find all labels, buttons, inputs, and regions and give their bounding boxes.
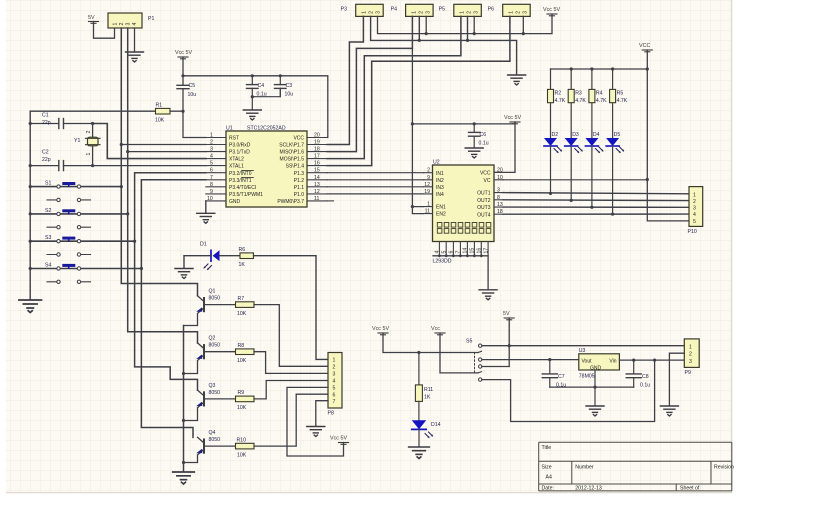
node P4 pin2 <box>418 39 421 42</box>
U2 GND pin stubs to bus <box>439 242 488 256</box>
wire GND-bus to R1 <box>30 110 155 112</box>
svg-text:D14: D14 <box>431 422 441 428</box>
transistor Q4 <box>184 430 236 463</box>
transistor Q2 <box>184 336 236 374</box>
svg-text:17: 17 <box>314 154 320 160</box>
svg-text:L293DD: L293DD <box>433 259 452 265</box>
wire net P1.3/TxD/S2/Q2: vertical x=127.7 <box>128 28 198 343</box>
node C1-crystal junction <box>91 122 94 125</box>
svg-text:IN3: IN3 <box>436 185 444 191</box>
wire RxD row to U1 pin2 <box>121 144 206 146</box>
svg-text:6: 6 <box>333 392 336 398</box>
wire U1 GND pin10 to ground <box>205 201 207 213</box>
LED D2 <box>544 132 562 193</box>
svg-text:SS\P1.4: SS\P1.4 <box>286 164 305 170</box>
power 5V at regulator <box>503 311 514 320</box>
wire left ground bus vertical <box>29 111 31 299</box>
capacitor C6 <box>469 124 489 148</box>
svg-text:P3.3/INT1: P3.3/INT1 <box>229 178 252 184</box>
power Vcc 5V at U2 <box>504 115 521 124</box>
node S1 tap <box>120 185 123 188</box>
svg-text:5V: 5V <box>503 311 510 317</box>
svg-text:1K: 1K <box>239 262 246 268</box>
U2 GND pin rotated numbers <box>435 248 490 254</box>
U1 INT0/INT1 overlines <box>242 170 254 177</box>
svg-text:P4: P4 <box>391 7 397 13</box>
U1 left pin numbers <box>207 133 213 202</box>
svg-text:P3.2/INT0: P3.2/INT0 <box>229 171 252 177</box>
svg-text:R6: R6 <box>239 247 246 253</box>
capacitor C7 <box>542 360 566 389</box>
node C5/R1/RST junction <box>181 110 184 113</box>
svg-text:4: 4 <box>435 251 441 254</box>
svg-text:P5: P5 <box>439 7 445 13</box>
svg-text:Q4: Q4 <box>209 430 216 436</box>
svg-text:Date:: Date: <box>542 485 554 491</box>
svg-text:Y1: Y1 <box>74 138 80 144</box>
ground U2 <box>479 290 497 300</box>
svg-text:7: 7 <box>456 251 462 254</box>
svg-text:MOSI\P1.5: MOSI\P1.5 <box>280 157 305 163</box>
svg-text:P1.2: P1.2 <box>294 178 305 184</box>
svg-text:GND: GND <box>590 365 602 371</box>
node P6 pin3 <box>522 32 525 35</box>
svg-text:8: 8 <box>210 182 213 188</box>
wire 5V to P1 pin1 <box>94 22 115 39</box>
svg-text:VC: VC <box>484 178 491 184</box>
resistor R3 <box>568 69 586 139</box>
svg-text:P1.1: P1.1 <box>294 185 305 191</box>
node S1 bus <box>29 185 32 188</box>
wire U1 pin15 to U2 IN1 <box>327 172 423 174</box>
crystal Y1 <box>74 124 100 166</box>
svg-text:P3.1/TxD: P3.1/TxD <box>229 150 250 156</box>
svg-text:20: 20 <box>314 133 320 139</box>
resistor R7 <box>236 296 255 317</box>
node EN rail Vcc branch <box>411 122 414 125</box>
svg-text:3: 3 <box>523 11 529 14</box>
svg-text:3: 3 <box>425 11 431 14</box>
wire R11 top <box>418 353 420 385</box>
ground C4/C3 <box>243 110 261 120</box>
node 5V crossing pole1 line <box>508 344 511 347</box>
svg-text:C4: C4 <box>258 83 265 89</box>
wire TxD row to U1 pin3 <box>128 151 206 153</box>
chip U2 L293DD body <box>433 165 495 242</box>
svg-text:Number: Number <box>575 465 594 471</box>
svg-text:0.1u: 0.1u <box>479 141 489 147</box>
svg-text:1: 1 <box>693 192 696 198</box>
wire Vcc5V to U2 VCC pin20 <box>494 122 515 172</box>
svg-text:C1: C1 <box>42 113 49 119</box>
ground top connectors <box>508 75 526 85</box>
svg-text:P3.4/T0/ECI: P3.4/T0/ECI <box>229 185 256 191</box>
svg-text:5: 5 <box>333 386 336 392</box>
svg-text:XTAL2: XTAL2 <box>229 157 244 163</box>
svg-text:Vcc 5V: Vcc 5V <box>372 326 389 332</box>
ground D1 <box>175 269 193 279</box>
node C8 top <box>632 359 635 362</box>
svg-text:A4: A4 <box>546 475 552 481</box>
wire VCC vertical to P10 pin5 <box>647 50 689 221</box>
svg-text:6: 6 <box>210 168 213 174</box>
node VCC/led-rail <box>646 67 649 70</box>
svg-text:Vcc 5V: Vcc 5V <box>504 115 521 121</box>
svg-text:1: 1 <box>86 153 92 156</box>
svg-text:VCC: VCC <box>480 171 491 177</box>
svg-text:1: 1 <box>333 358 336 364</box>
svg-text:2: 2 <box>516 11 522 14</box>
svg-text:4: 4 <box>210 154 213 160</box>
wire S5 top contact to P9 pin1 <box>482 345 689 347</box>
capacitor C8 <box>626 360 650 388</box>
switch S5 <box>466 339 482 382</box>
node Q4 emitter rail <box>182 461 185 464</box>
capacitor C5 <box>177 83 196 98</box>
svg-text:R9: R9 <box>238 390 245 396</box>
svg-text:Vcc 5V: Vcc 5V <box>543 7 560 13</box>
svg-text:Title: Title <box>542 445 552 451</box>
svg-text:2012-12-13: 2012-12-13 <box>575 485 602 491</box>
resistor R10 <box>236 437 255 458</box>
wire Vcc vertical to C5 and R1 junction then U1 pin1 <box>183 57 206 138</box>
svg-text:PWM0\P3.7: PWM0\P3.7 <box>277 199 304 205</box>
svg-text:9: 9 <box>427 175 430 181</box>
svg-text:Revision: Revision <box>714 465 734 471</box>
connector P3 <box>341 4 384 16</box>
U2 left pin numbers <box>424 168 430 215</box>
node S2 bus <box>29 212 32 215</box>
wire net S4/INT1/Q4 <box>141 180 205 438</box>
node VCC/VC-line <box>646 178 649 181</box>
node Q3 emitter rail <box>182 419 185 422</box>
resistor R1 <box>155 103 170 124</box>
power Vcc 5V at P8 <box>330 436 349 445</box>
U1 right pin names <box>277 136 304 205</box>
wire Vcc to S5 pole2 <box>440 333 478 373</box>
resistor R4 <box>589 69 607 139</box>
LED D1 <box>200 242 220 270</box>
U1 left pin stubs 1-10 <box>206 138 226 201</box>
svg-text:9: 9 <box>210 189 213 195</box>
svg-text:17: 17 <box>483 248 489 254</box>
ground left bus <box>19 300 42 313</box>
node C4 top <box>251 74 254 77</box>
node C4 bottom <box>251 95 254 98</box>
node S3 bus <box>29 240 32 243</box>
svg-text:Q2: Q2 <box>209 336 216 342</box>
wire R6 to P8 pin1 <box>254 256 329 360</box>
node P1.3 row <box>126 150 129 153</box>
svg-text:5: 5 <box>693 219 696 225</box>
svg-text:1: 1 <box>427 202 430 208</box>
svg-text:D1: D1 <box>200 242 207 248</box>
node D2 to OUT1 <box>549 192 552 195</box>
node P5 pin2 <box>466 39 469 42</box>
svg-text:12: 12 <box>314 189 320 195</box>
svg-text:STC12C2052AD: STC12C2052AD <box>247 126 286 132</box>
svg-text:U3: U3 <box>579 348 586 354</box>
svg-text:8: 8 <box>497 195 500 201</box>
svg-text:4: 4 <box>132 23 138 26</box>
wire OUT3 to P10 pin3 <box>503 206 689 208</box>
svg-text:C5: C5 <box>189 83 196 89</box>
svg-text:Vin: Vin <box>609 359 616 365</box>
svg-text:1: 1 <box>411 11 417 14</box>
wire C7/C8 ground bus to U3 GND <box>550 370 634 406</box>
svg-text:10u: 10u <box>188 92 197 98</box>
svg-text:5V: 5V <box>88 15 95 21</box>
node R11 tap <box>417 351 420 354</box>
node P4 pin3 <box>425 32 428 35</box>
node U3 gnd <box>593 386 596 389</box>
node D4 to OUT3 <box>590 206 593 209</box>
capacitor C3 <box>275 76 294 98</box>
wire VCC pin20 riser to decoupling rail <box>183 76 328 138</box>
svg-text:10K: 10K <box>237 452 247 458</box>
node bus-C1 <box>29 122 32 125</box>
wire U2 VC pin10 to VCC rail <box>503 179 647 181</box>
svg-text:R2: R2 <box>555 91 562 97</box>
wire Vcc5V to S5 pole1 <box>383 333 478 353</box>
node U2 gnd joins <box>438 254 483 257</box>
svg-text:2: 2 <box>689 352 692 358</box>
LED D14 <box>412 420 441 438</box>
transistor Q3 <box>184 383 236 421</box>
svg-text:2: 2 <box>467 11 473 14</box>
wire D14 to ground <box>418 429 420 446</box>
node rail col3 <box>590 67 593 70</box>
power Vcc 5V (reset circuit) <box>175 50 192 59</box>
svg-text:3: 3 <box>126 23 132 26</box>
node S3 tap <box>133 240 136 243</box>
svg-text:10: 10 <box>207 196 213 202</box>
svg-text:1K: 1K <box>424 395 431 401</box>
svg-text:10u: 10u <box>285 92 294 98</box>
wire OUT4 to P10 pin4 <box>503 213 689 215</box>
svg-text:3: 3 <box>689 359 692 365</box>
svg-text:15: 15 <box>314 168 320 174</box>
wire R9 to P8 pin4 <box>254 381 328 399</box>
svg-text:R4: R4 <box>596 91 603 97</box>
node C2-crystal junction <box>91 164 94 167</box>
connector P9 <box>684 339 699 376</box>
svg-text:S1: S1 <box>45 181 51 187</box>
svg-text:10K: 10K <box>237 311 247 317</box>
svg-text:2: 2 <box>427 168 430 174</box>
wire U1 pin11 stub dangling <box>327 200 333 202</box>
svg-text:Q3: Q3 <box>209 383 216 389</box>
svg-text:R11: R11 <box>424 387 433 393</box>
node D3 to OUT2 <box>570 199 573 202</box>
U1 right pin stubs 20-11 <box>307 138 327 201</box>
svg-text:Vcc 5V: Vcc 5V <box>175 50 192 56</box>
svg-text:4.7K: 4.7K <box>596 98 607 104</box>
svg-text:SCLK\P1.7: SCLK\P1.7 <box>279 143 304 149</box>
svg-text:C6: C6 <box>480 132 487 138</box>
svg-text:19: 19 <box>424 189 430 195</box>
ground P8 pin7 <box>307 427 325 437</box>
node C6 top <box>473 122 476 125</box>
svg-text:19: 19 <box>314 140 320 146</box>
node D5 to OUT4 <box>611 213 614 216</box>
svg-text:VCC: VCC <box>293 136 304 142</box>
svg-text:2: 2 <box>86 131 92 134</box>
svg-text:10K: 10K <box>155 118 165 124</box>
wire U3 Vin to P9 pin3 <box>619 359 684 361</box>
svg-text:22p: 22p <box>42 157 51 163</box>
wire P8 pin7 to ground <box>316 401 328 426</box>
wire U1 pin13 to U2 IN3 <box>327 186 423 188</box>
resistor R8 <box>236 343 255 364</box>
svg-text:18: 18 <box>314 147 320 153</box>
wire EN rail x=412.4 down to EN1/EN2 <box>412 48 515 213</box>
svg-text:R3: R3 <box>575 91 582 97</box>
svg-text:5: 5 <box>441 251 447 254</box>
node bus-C2 <box>29 164 32 167</box>
power 5V top-left <box>88 15 99 23</box>
power VCC top right <box>639 43 652 52</box>
wire C1 to XTAL2 route <box>93 124 206 159</box>
wire staircase P3 pin1 to U1 pin19 <box>327 16 363 144</box>
connector P10 <box>688 187 703 235</box>
wire U1 pin12 to U2 IN4 <box>327 193 423 195</box>
svg-text:1: 1 <box>460 11 466 14</box>
svg-text:D2: D2 <box>552 132 559 138</box>
svg-text:Vout: Vout <box>582 359 593 365</box>
svg-text:IN2: IN2 <box>436 178 444 184</box>
capacitor C2 <box>30 150 92 171</box>
svg-text:Vcc: Vcc <box>431 326 440 332</box>
ground C6 <box>465 148 483 158</box>
wire C4/C3 bottoms join <box>252 88 280 109</box>
capacitor C4 <box>247 76 267 98</box>
svg-text:1: 1 <box>210 133 213 139</box>
power Vcc feed <box>431 326 445 335</box>
svg-text:4: 4 <box>693 212 696 218</box>
svg-text:6: 6 <box>449 251 455 254</box>
ground U3 <box>586 406 604 416</box>
wire U1 pin14 to U2 IN2 <box>327 179 423 181</box>
wire GND bus y=40.4 connecting pin2 of P3..P6 to ground <box>371 16 517 74</box>
svg-text:1: 1 <box>509 11 515 14</box>
svg-text:3: 3 <box>376 11 382 14</box>
svg-text:MISO\P1.6: MISO\P1.6 <box>280 150 305 156</box>
svg-text:P1.0: P1.0 <box>294 192 305 198</box>
resistor R9 <box>236 390 255 411</box>
wire emitter rail <box>183 326 185 472</box>
LED D4 <box>585 132 603 207</box>
svg-text:P8: P8 <box>328 411 334 417</box>
resistor R6 <box>239 247 254 268</box>
wire staircase P4 pin1 to U1 pin18 and EN rail <box>327 16 412 151</box>
svg-text:C3: C3 <box>286 83 293 89</box>
U2 right pin numbers <box>497 167 503 215</box>
svg-text:Vcc 5V: Vcc 5V <box>330 436 347 442</box>
svg-text:IN1: IN1 <box>436 171 444 177</box>
svg-text:10K: 10K <box>237 358 247 364</box>
svg-text:C2: C2 <box>42 150 49 156</box>
svg-text:U1: U1 <box>226 126 233 132</box>
node P1.2 row <box>120 143 123 146</box>
wire R7 to P8 pin2 <box>254 305 328 367</box>
svg-text:VCC: VCC <box>639 43 650 49</box>
svg-text:RST: RST <box>229 136 239 142</box>
switch S2 <box>30 208 128 229</box>
svg-text:P10: P10 <box>688 229 697 235</box>
wire S5 contact2 to U3 Vout <box>482 359 579 361</box>
wire D1 cathode to ground <box>184 256 211 268</box>
wire net S3/INT0/Q3 <box>135 173 206 391</box>
svg-text:2: 2 <box>333 365 336 371</box>
regulator U3 78M05 <box>579 348 620 380</box>
svg-text:D4: D4 <box>593 132 600 138</box>
node Vin line tap <box>653 359 656 362</box>
ground D14 <box>409 447 430 459</box>
svg-text:10K: 10K <box>237 405 247 411</box>
svg-text:4: 4 <box>333 379 336 385</box>
svg-text:8050: 8050 <box>209 296 221 302</box>
svg-text:OUT4: OUT4 <box>477 212 491 218</box>
ground P1 pin4 <box>126 52 144 62</box>
svg-text:4.7K: 4.7K <box>617 98 628 104</box>
wire P8 pin5 to Vcc5V loop <box>287 387 344 456</box>
svg-text:2: 2 <box>210 140 213 146</box>
svg-text:5: 5 <box>210 161 213 167</box>
svg-text:EN1: EN1 <box>436 205 446 211</box>
svg-text:OUT3: OUT3 <box>477 205 491 211</box>
svg-text:0.1u: 0.1u <box>640 383 650 389</box>
wire C2 to XTAL1 route <box>93 165 206 167</box>
wire staircase P6 pin1 to U1 pin16 <box>327 16 510 165</box>
ground U1 pin10 <box>197 213 215 223</box>
svg-text:GND: GND <box>229 199 241 205</box>
svg-text:S3: S3 <box>45 235 51 241</box>
wire VCC bus y=33.6 connecting pin3 of P3..P6 to Vcc5V <box>378 14 553 34</box>
wire 5V post down <box>482 318 509 367</box>
svg-text:13: 13 <box>314 182 320 188</box>
connector P8 <box>328 353 343 417</box>
svg-text:22p: 22p <box>42 120 51 126</box>
svg-text:R5: R5 <box>617 91 624 97</box>
svg-text:EN2: EN2 <box>436 212 446 218</box>
svg-text:D5: D5 <box>614 132 621 138</box>
node EN1 tap <box>411 205 414 208</box>
node Vcc rail left <box>181 74 184 77</box>
node S4 tap <box>140 267 143 270</box>
svg-text:IN4: IN4 <box>436 192 444 198</box>
svg-text:Q1: Q1 <box>209 289 216 295</box>
wire R1 to junction <box>170 110 183 112</box>
svg-text:Size: Size <box>542 465 552 471</box>
capacitor C1 <box>30 113 92 129</box>
svg-text:8050: 8050 <box>209 343 221 349</box>
svg-text:3: 3 <box>693 206 696 212</box>
svg-text:2: 2 <box>119 23 125 26</box>
svg-text:Sheet of: Sheet of <box>680 485 700 491</box>
svg-text:3: 3 <box>210 147 213 153</box>
svg-text:1: 1 <box>113 23 119 26</box>
node Q2 emitter rail <box>182 372 185 375</box>
node C7 top <box>548 358 551 361</box>
U2 right pin stubs <box>494 172 503 214</box>
svg-text:R7: R7 <box>238 296 245 302</box>
resistor R5 <box>610 69 628 139</box>
svg-text:1: 1 <box>689 344 692 350</box>
svg-text:R1: R1 <box>156 103 163 109</box>
svg-text:3: 3 <box>333 372 336 378</box>
svg-text:12: 12 <box>424 182 430 188</box>
